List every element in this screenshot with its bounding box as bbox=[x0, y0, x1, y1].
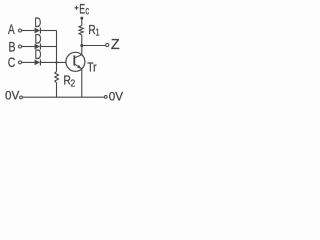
label +Ec plus sign bbox=[75, 6, 79, 10]
wire C diode to transistor base bbox=[41, 61, 66, 63]
svg-text:Tr: Tr bbox=[87, 60, 96, 74]
diode D (input C) bbox=[35, 60, 40, 66]
node 0V left terminal bbox=[20, 96, 23, 99]
svg-text:0V: 0V bbox=[5, 88, 19, 102]
background bbox=[0, 0, 135, 110]
node Z terminal bbox=[106, 44, 109, 47]
wire B to diode bbox=[22, 46, 35, 48]
transistor emitter arrowhead bbox=[77, 65, 82, 69]
svg-text:R: R bbox=[88, 23, 96, 37]
svg-text:D: D bbox=[34, 15, 41, 30]
wire emitter lead bbox=[81, 69, 83, 98]
svg-text:1: 1 bbox=[96, 26, 100, 37]
svg-text:0V: 0V bbox=[109, 89, 123, 103]
wire A to diode bbox=[22, 30, 35, 32]
svg-text:B: B bbox=[9, 39, 16, 55]
svg-text:Z: Z bbox=[111, 37, 120, 53]
wire Z output bbox=[82, 45, 106, 47]
junction dot base bus bbox=[55, 61, 57, 63]
node A terminal bbox=[19, 29, 22, 32]
svg-text:C: C bbox=[8, 55, 16, 71]
transistor emitter stroke bbox=[74, 64, 81, 69]
junction dot +Ec bbox=[80, 17, 83, 20]
transistor Tr body bbox=[66, 52, 85, 71]
wire C to diode bbox=[22, 61, 35, 63]
svg-text:2: 2 bbox=[71, 78, 76, 90]
wire collector bbox=[81, 46, 83, 55]
junction dot Z branch bbox=[80, 44, 83, 47]
wire A diode to bus bbox=[41, 30, 57, 32]
resistor R2 bbox=[55, 72, 59, 98]
svg-text:D: D bbox=[35, 47, 42, 62]
svg-text:A: A bbox=[8, 21, 15, 37]
node B terminal bbox=[19, 45, 22, 48]
node C terminal bbox=[19, 61, 22, 64]
resistor R1 bbox=[79, 25, 83, 45]
svg-text:c: c bbox=[85, 5, 89, 18]
svg-text:D: D bbox=[35, 32, 42, 47]
wire 0V rail bbox=[23, 96, 105, 98]
diode D (input B) bbox=[35, 44, 40, 50]
wire bus vertical bbox=[56, 31, 58, 72]
svg-text:E: E bbox=[79, 1, 85, 17]
transistor base bar bbox=[73, 55, 75, 65]
wire +Ec lead bbox=[81, 18, 83, 25]
transistor collector stroke bbox=[74, 55, 82, 58]
diode D (input A) bbox=[35, 28, 40, 34]
wire B diode to bus bbox=[41, 46, 57, 48]
node 0V right terminal bbox=[104, 96, 107, 99]
